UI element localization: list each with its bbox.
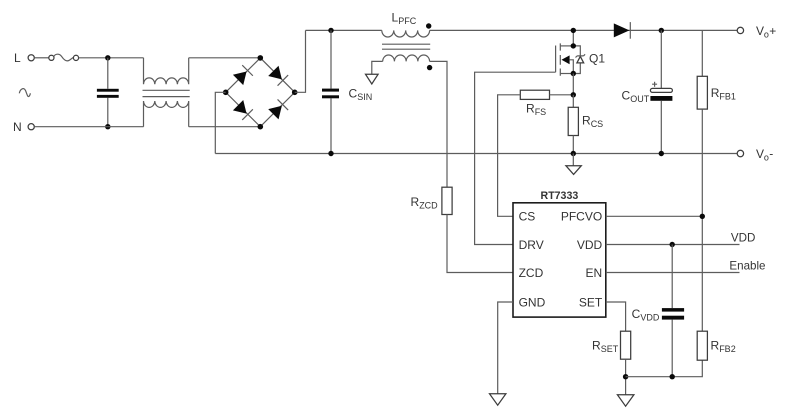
svg-text:+: +	[769, 24, 776, 38]
svg-text:CS: CS	[591, 119, 604, 129]
svg-text:R: R	[592, 339, 601, 353]
Q1 body connection	[570, 60, 574, 74]
svg-text:R: R	[411, 195, 420, 209]
svg-text:VDD: VDD	[731, 232, 755, 245]
svg-text:R: R	[711, 339, 720, 353]
resistor RZCD	[442, 187, 452, 214]
node COUT top	[659, 28, 664, 33]
node bridge bottom	[258, 124, 264, 130]
Q1 drain tap	[560, 45, 573, 47]
node input cap top	[105, 55, 110, 60]
node Q1 drain rail	[571, 28, 576, 33]
svg-text:SIN: SIN	[357, 92, 372, 102]
node input cap bottom	[105, 124, 110, 129]
wire COUT top lead	[660, 30, 662, 88]
wire fuse to input cap node	[79, 57, 144, 59]
resistor RCS	[568, 107, 578, 135]
fuse F1	[49, 55, 54, 60]
wire RFS right lead	[550, 94, 574, 96]
wire return to power ground	[572, 154, 574, 166]
svg-text:EN: EN	[586, 266, 603, 280]
bridge diode D2 (top to right)	[268, 66, 288, 86]
wire PFCVO to feedback node	[606, 215, 703, 217]
LPFC phase dot primary	[426, 23, 431, 28]
wire input cap leads	[107, 58, 109, 127]
svg-text:DRV: DRV	[519, 238, 544, 252]
svg-text:VDD: VDD	[640, 312, 660, 322]
svg-text:C: C	[632, 307, 641, 321]
Q1 body diode branch	[573, 46, 580, 74]
svg-text:FB1: FB1	[719, 91, 736, 101]
bridge rectifier diamond edges	[226, 58, 295, 127]
svg-text:ZCD: ZCD	[519, 266, 544, 280]
wire Q1 source to RFS/RCS node	[572, 74, 574, 95]
wire CVDD top lead	[671, 245, 673, 309]
LPFC phase dot aux	[427, 65, 432, 70]
svg-text:N: N	[13, 120, 22, 134]
capacitor COUT top plate	[650, 88, 672, 92]
wire top rail to Q1 drain	[572, 30, 574, 46]
terminal Vo-	[737, 150, 743, 156]
Q1 channel segments	[559, 43, 561, 75]
common-mode choke L1 bottom winding	[144, 101, 189, 127]
Q1 body arrow	[562, 55, 570, 64]
node Q1 source	[571, 71, 576, 76]
Q1 gate plate	[555, 46, 557, 73]
wire N terminal to choke	[34, 126, 143, 128]
svg-text:GND: GND	[519, 295, 546, 309]
svg-text:o: o	[764, 153, 769, 163]
node bridge top	[258, 55, 264, 61]
wire GND pin to ground	[498, 302, 513, 394]
ground power stage	[566, 166, 581, 175]
terminal Vo+	[737, 27, 743, 33]
capacitor CVDD plates	[662, 308, 684, 312]
svg-text:C: C	[622, 89, 631, 103]
common-mode choke L1 top winding	[144, 58, 189, 85]
wire RFB1 top lead	[701, 30, 703, 76]
svg-text:R: R	[711, 86, 720, 100]
resistor RFS	[520, 90, 549, 99]
bridge diode D1 (left to top)	[233, 65, 253, 85]
bridge diode D4 (bottom to right)	[268, 99, 288, 119]
svg-text:RT7333: RT7333	[541, 190, 579, 202]
svg-text:PFCVO: PFCVO	[561, 210, 602, 224]
node PFCVO feedback	[700, 214, 705, 219]
resistor RFB1	[697, 76, 707, 109]
svg-text:SET: SET	[579, 295, 603, 309]
node Q1 drain	[571, 43, 576, 48]
Q1 body diode symbol	[577, 56, 584, 63]
wire aux winding left to ground	[372, 61, 383, 74]
svg-text:PFC: PFC	[398, 16, 417, 26]
wire VDD pin	[606, 244, 740, 246]
diode D5 boost output	[614, 23, 630, 37]
capacitor X1 (input filter cap)	[97, 89, 119, 92]
wire COUT bottom lead	[660, 101, 662, 154]
ground aux winding	[366, 74, 379, 84]
Q1 source tap	[560, 73, 573, 75]
svg-text:SET: SET	[601, 344, 619, 354]
wire bridge left node to return rail	[215, 92, 225, 153]
wire RCS top lead	[572, 95, 574, 108]
op-amp U1 RT7333 box	[513, 203, 606, 317]
ground signal	[617, 395, 634, 406]
svg-text:ZCD: ZCD	[419, 201, 438, 211]
node RSET bottom	[623, 374, 628, 379]
common-mode choke L1 core	[143, 90, 190, 96]
wire RSET bottom to ground net	[625, 359, 627, 395]
svg-text:L: L	[14, 51, 21, 65]
svg-text:C: C	[349, 87, 358, 101]
svg-text:o: o	[764, 30, 769, 40]
inductor LPFC core	[382, 44, 430, 49]
wire L terminal to fuse	[34, 57, 48, 59]
node bridge right	[292, 90, 298, 96]
AC source symbol	[19, 89, 30, 97]
node RFS RCS junction	[571, 92, 576, 97]
terminal L	[28, 55, 34, 61]
resistor RFB2	[697, 331, 707, 360]
bridge diode D3 (left to bottom)	[233, 100, 253, 120]
wire aux winding right to RZCD	[430, 61, 447, 187]
svg-text:FS: FS	[535, 107, 547, 117]
wire small-signal ground net	[626, 360, 703, 377]
wire choke to bridge top node	[189, 57, 261, 59]
node C_SIN bottom	[328, 151, 333, 156]
node RCS return	[571, 151, 576, 156]
capacitor CSIN leads	[330, 30, 332, 153]
node COUT bottom	[659, 151, 664, 156]
node bridge left	[223, 90, 229, 96]
transistor Q1 MOSFET	[556, 43, 586, 76]
wire CVDD bottom lead	[671, 320, 673, 377]
wire Q1 gate to DRV	[475, 72, 556, 244]
wire RFS left lead to CS pin	[498, 95, 521, 217]
inductor LPFC primary winding	[382, 30, 430, 37]
wire RCS bottom lead	[572, 136, 574, 154]
wire RZCD to ZCD pin	[447, 215, 513, 273]
terminal N	[28, 124, 34, 130]
inductor LPFC aux winding	[383, 55, 430, 61]
wire top rail	[306, 29, 738, 31]
node VDD CVDD tap	[670, 242, 675, 247]
wire choke to bridge bottom node	[189, 126, 261, 128]
wire SET pin to RSET	[606, 302, 626, 331]
svg-text:OUT: OUT	[630, 94, 650, 104]
svg-text:VDD: VDD	[577, 238, 603, 252]
svg-text:V: V	[756, 147, 764, 161]
svg-text:CS: CS	[519, 210, 536, 224]
node CVDD bottom	[670, 374, 675, 379]
capacitor COUT polarity plus	[652, 82, 657, 87]
ground IC	[490, 394, 506, 405]
svg-text:FB2: FB2	[719, 344, 736, 354]
wire EN pin	[606, 272, 740, 274]
capacitor COUT bottom plate	[650, 96, 672, 101]
resistor RSET	[621, 331, 631, 359]
wire RFB1 to PFCVO node and down to RFB2	[701, 109, 703, 331]
svg-text:V: V	[756, 24, 764, 38]
node C_SIN top	[328, 28, 333, 33]
svg-text:R: R	[582, 114, 591, 128]
wire bridge right node to top rail	[295, 30, 306, 92]
svg-text:-: -	[769, 147, 773, 161]
svg-text:R: R	[526, 102, 535, 116]
capacitor CSIN plates	[322, 89, 339, 92]
svg-text:Enable: Enable	[729, 260, 765, 273]
svg-text:Q1: Q1	[589, 51, 605, 65]
wire return rail (Vo-)	[215, 153, 737, 155]
